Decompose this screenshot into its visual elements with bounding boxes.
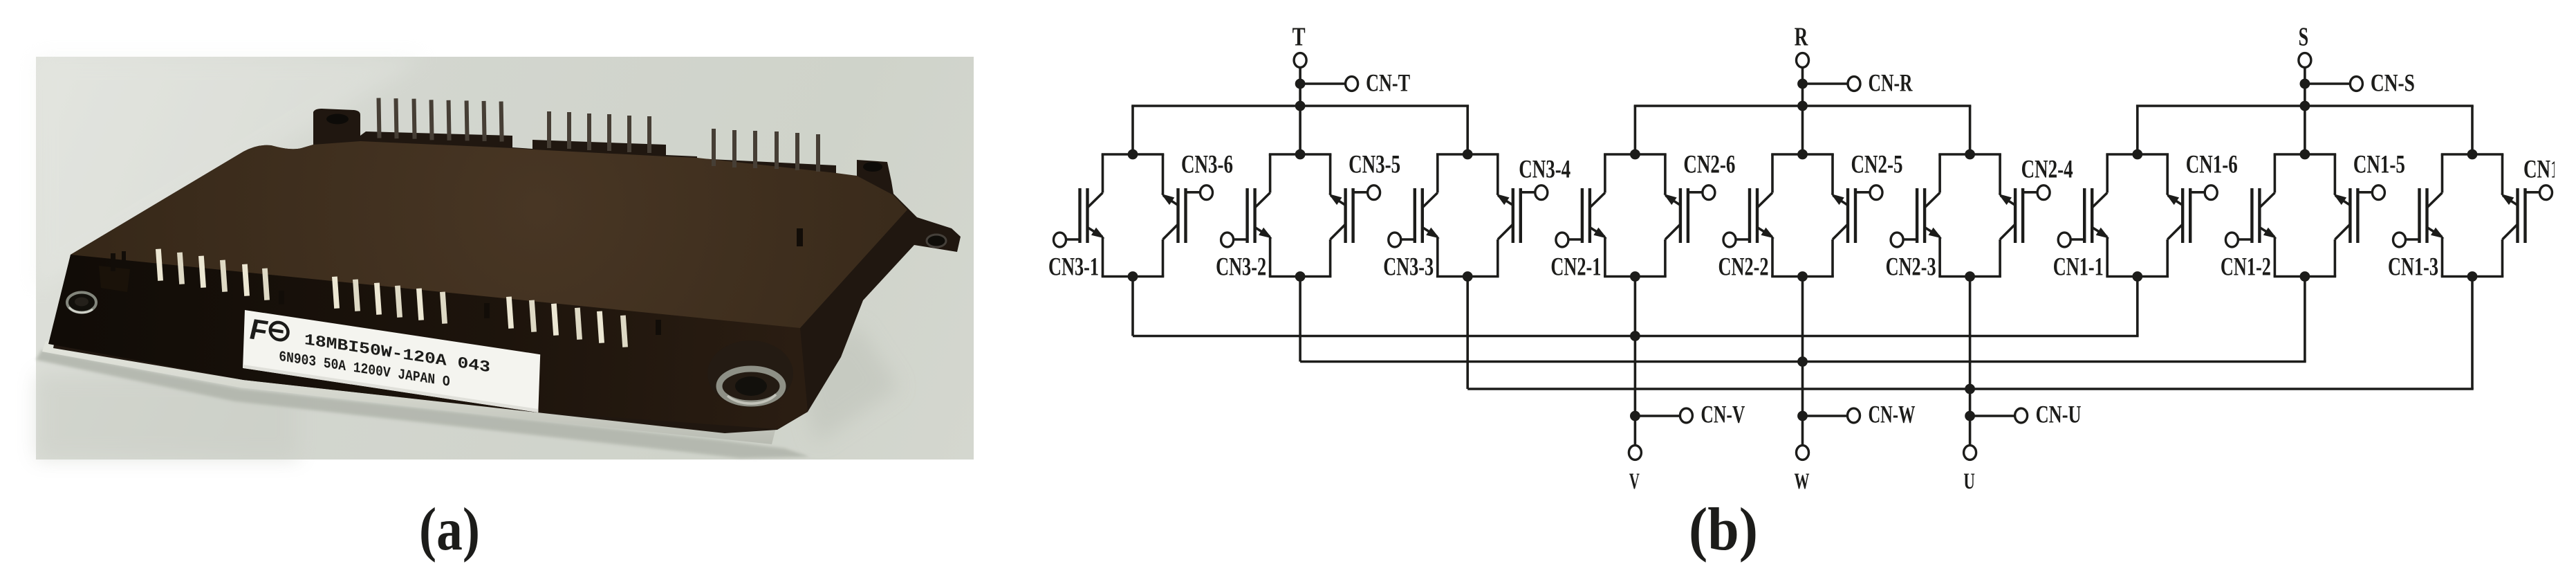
soft shadow right end	[795, 325, 899, 443]
junction dot cell bottom node	[1797, 271, 1808, 282]
junction dot cell bottom node	[2467, 271, 2478, 282]
back-left corner boss hole	[326, 114, 349, 125]
module power pin row C	[506, 296, 628, 347]
module shadow	[36, 350, 809, 458]
junction dot cell top node	[1463, 149, 1473, 160]
module front face	[48, 255, 808, 429]
svg-text:V: V	[1629, 469, 1640, 494]
wire right collector lead	[2166, 239, 2169, 277]
gate terminal circle CN1-2	[2225, 233, 2238, 247]
svg-text:CN1-1: CN1-1	[2053, 253, 2104, 282]
wire left collector lead	[1102, 154, 1104, 193]
wire cell top edge	[1102, 153, 1165, 156]
wire output stem W	[1801, 277, 1804, 446]
wire right emitter lead	[2166, 154, 2169, 194]
svg-text:CN-W: CN-W	[1869, 401, 1916, 428]
gate terminal circle CN3-5	[1368, 185, 1380, 200]
junction dot CN-R tap	[1797, 79, 1808, 89]
transistor CN2-2 (left IGBT)	[1736, 188, 1775, 243]
wire right emitter lead	[1664, 154, 1667, 194]
wire right emitter lead	[1831, 154, 1834, 194]
photo background highlight top-left	[36, 57, 429, 291]
svg-text:CN3-1: CN3-1	[1048, 253, 1099, 282]
connector circle CN-V	[1680, 408, 1692, 423]
gate terminal circle CN3-2	[1221, 233, 1234, 247]
photo background shade bottom-left	[36, 374, 299, 460]
wire right collector lead	[1999, 239, 2001, 277]
transistor CN3-6 (right IGBT)	[1161, 188, 1201, 243]
wire output bus U	[1467, 388, 2474, 390]
wire cell top edge	[2274, 153, 2337, 156]
svg-text:CN1-3: CN1-3	[2388, 253, 2438, 282]
wire left emitter lead	[2441, 238, 2444, 277]
transistor CN2-6 (right IGBT)	[1663, 188, 1703, 243]
junction dot T rail	[1295, 101, 1306, 111]
gate terminal circle CN2-2	[1723, 233, 1736, 247]
wire R rail	[1634, 104, 1972, 107]
wire CN-U tap	[1970, 415, 2015, 417]
svg-text:CN2-5: CN2-5	[1851, 151, 1903, 179]
svg-text:U: U	[1963, 469, 1975, 494]
transistor CN3-4 (right IGBT)	[1496, 188, 1535, 243]
svg-text:W: W	[1795, 469, 1810, 494]
wire left collector lead	[1771, 154, 1774, 193]
junction dot cell bottom node	[1295, 271, 1306, 282]
transistor CN1-6 (right IGBT)	[2166, 188, 2205, 243]
wire S rail	[2136, 104, 2474, 107]
wire cell CN1-3 drop to U bus	[2471, 277, 2474, 390]
wire S vertical feed	[2304, 68, 2306, 155]
svg-text:S: S	[2299, 23, 2309, 52]
input phase S	[2136, 23, 2474, 155]
junction dot U bus / output stem	[1965, 384, 1975, 394]
gate terminal circle CN1-6	[2205, 185, 2217, 200]
wire left emitter lead	[1436, 238, 1439, 277]
svg-text:(a): (a)	[419, 496, 480, 563]
wire output stem U	[1969, 277, 1972, 446]
svg-text:CN1-2: CN1-2	[2221, 253, 2271, 282]
front-left corner bump	[99, 266, 130, 292]
bidirectional switch cell CN1-3/CN1-4	[2388, 149, 2575, 282]
transistor CN2-5 (right IGBT)	[1831, 188, 1871, 243]
wire cell CN3-1 drop to V bus	[1131, 277, 1134, 336]
junction dot cell bottom node	[2132, 271, 2142, 282]
junction dot R rail	[1797, 101, 1808, 111]
transistor CN3-2 (left IGBT)	[1234, 188, 1272, 243]
connector circle CN-R	[1848, 77, 1860, 91]
output phase V	[1629, 277, 1745, 495]
terminal circle S	[2299, 53, 2311, 68]
wire cell top edge	[1436, 153, 1499, 156]
wire cell bottom edge	[2441, 275, 2504, 278]
wire output bus W	[1300, 361, 2306, 363]
front-right mounting boss	[707, 340, 793, 407]
junction dot cell top node	[1965, 149, 1975, 160]
photo background	[36, 57, 974, 460]
gate terminal circle CN2-3	[1891, 233, 1903, 247]
svg-text:CN2-3: CN2-3	[1886, 253, 1936, 282]
gate terminal circle CN1-5	[2372, 185, 2384, 200]
junction dot S rail	[2300, 101, 2310, 111]
wire right collector lead	[1664, 239, 1667, 277]
svg-text:CN1-5: CN1-5	[2353, 151, 2405, 179]
junction dot cell top node	[2467, 149, 2478, 160]
wire left emitter lead	[1938, 238, 1941, 277]
wire cell CN1-2 drop to W bus	[2304, 277, 2306, 362]
junction dot cell top node	[1128, 149, 1138, 160]
gate terminal circle CN3-1	[1054, 233, 1066, 247]
wire cell CN3-3 drop to U bus	[1466, 277, 1469, 390]
wire cell bottom edge	[1604, 275, 1667, 278]
junction dot W bus / output stem	[1797, 356, 1808, 367]
gate terminal circle CN3-3	[1389, 233, 1401, 247]
module signal pins group 1	[376, 96, 503, 143]
svg-text:CN2-2: CN2-2	[1718, 253, 1769, 282]
wire right emitter lead	[2334, 154, 2337, 194]
left mounting ear hole	[67, 293, 96, 313]
wire rail drop right	[2471, 106, 2474, 154]
wire CN-R tap	[1803, 82, 1848, 85]
wire cell top edge	[1938, 153, 2001, 156]
svg-text:CN1-6: CN1-6	[2186, 151, 2238, 179]
transistor CN2-4 (right IGBT)	[1999, 188, 2038, 243]
wire cell bottom edge	[2106, 275, 2169, 278]
wire right emitter lead	[1329, 154, 1332, 194]
transistor CN1-3 (left IGBT)	[2406, 188, 2445, 243]
white crop at right edge (as in original figure)	[2555, 0, 2576, 582]
svg-text:CN2-1: CN2-1	[1550, 253, 1601, 282]
wire rail drop left	[1634, 106, 1637, 154]
svg-text:T: T	[1292, 23, 1306, 52]
wire T vertical feed	[1299, 68, 1301, 155]
bidirectional switch cell CN3-3/CN3-4	[1383, 149, 1570, 282]
svg-text:CN3-6: CN3-6	[1181, 151, 1233, 179]
junction dot cell top node	[1797, 149, 1808, 160]
junction dot CN-W tap	[1797, 411, 1808, 421]
input phase T	[1131, 23, 1469, 155]
output phase U	[1963, 277, 2081, 495]
wire left collector lead	[1604, 154, 1606, 193]
wire left emitter lead	[1269, 238, 1272, 277]
bidirectional switch cell CN2-1/CN2-6	[1550, 149, 1735, 282]
junction dot cell top node	[2132, 149, 2142, 160]
gate terminal circle CN2-1	[1556, 233, 1568, 247]
terminal circle W	[1797, 446, 1809, 460]
transistor CN3-5 (right IGBT)	[1328, 188, 1368, 243]
module power pin row A	[156, 248, 270, 300]
wire cell top edge	[1269, 153, 1332, 156]
svg-text:CN3-3: CN3-3	[1383, 253, 1434, 282]
svg-text:CN-V: CN-V	[1701, 401, 1745, 428]
gate terminal circle CN2-6	[1703, 185, 1715, 200]
wire right collector lead	[2334, 239, 2337, 277]
module baseplate	[42, 341, 776, 444]
svg-text:CN3-4: CN3-4	[1519, 156, 1570, 184]
module power pin row B	[332, 276, 447, 323]
transistor CN3-1 (left IGBT)	[1066, 188, 1105, 243]
wire right collector lead	[2501, 239, 2504, 277]
junction dot cell bottom node	[1965, 271, 1975, 282]
wire right emitter lead	[2501, 154, 2504, 194]
wire R vertical feed	[1801, 68, 1804, 155]
wire rail drop right	[1466, 106, 1469, 154]
connector circle CN-W	[1848, 408, 1860, 423]
wire left collector lead	[2106, 154, 2109, 193]
connector circle CN-S	[2350, 77, 2362, 91]
junction dot V bus / output stem	[1630, 331, 1640, 341]
junction dot cell top node	[1295, 149, 1306, 160]
junction dot CN-S tap	[2300, 79, 2310, 89]
transistor CN1-4 (right IGBT)	[2501, 188, 2540, 243]
transistor CN2-1 (left IGBT)	[1568, 188, 1607, 243]
wire cell bottom edge	[1436, 275, 1499, 278]
wire right collector lead	[1831, 239, 1834, 277]
wire cell CN1-1 drop to V bus	[2136, 277, 2139, 336]
svg-text:CN2-6: CN2-6	[1683, 151, 1735, 179]
svg-text:CN3-2: CN3-2	[1216, 253, 1266, 282]
terminal circle V	[1629, 446, 1641, 460]
terminal circle R	[1797, 53, 1809, 68]
wire cell bottom edge	[1938, 275, 2001, 278]
wire CN-S tap	[2305, 82, 2351, 85]
wire cell bottom edge	[1102, 275, 1165, 278]
gate terminal circle CN1-3	[2393, 233, 2406, 247]
wire cell top edge	[2441, 153, 2504, 156]
wire cell top edge	[2106, 153, 2169, 156]
wire right collector lead	[1497, 239, 1499, 277]
wire left collector lead	[2274, 154, 2277, 193]
junction dot cell bottom node	[1630, 271, 1640, 282]
transistor CN1-2 (left IGBT)	[2238, 188, 2277, 243]
svg-text:CN-R: CN-R	[1869, 69, 1914, 97]
transistor CN1-5 (right IGBT)	[2333, 188, 2373, 243]
wire rail drop left	[2136, 106, 2139, 154]
wire cell top edge	[1771, 153, 1834, 156]
gate terminal circle CN1-1	[2058, 233, 2070, 247]
gate terminal circle CN2-4	[2037, 185, 2050, 200]
wire rail drop left	[1131, 106, 1134, 154]
wire left collector lead	[2441, 154, 2444, 193]
wire cell top edge	[1604, 153, 1667, 156]
bidirectional switch cell CN1-2/CN1-5	[2221, 149, 2405, 282]
wire cell bottom edge	[2274, 275, 2337, 278]
module nameplate label	[243, 310, 540, 412]
transistor CN3-3 (left IGBT)	[1401, 188, 1440, 243]
svg-text:R: R	[1795, 23, 1808, 52]
wire CN-T tap	[1300, 82, 1346, 85]
bidirectional switch cell CN2-3/CN2-4	[1886, 149, 2073, 282]
svg-text:F: F	[249, 312, 269, 347]
wire output bus V	[1133, 335, 2139, 338]
wire left emitter lead	[1771, 238, 1774, 277]
right mounting ear hole	[927, 235, 946, 247]
svg-text:CN3-5: CN3-5	[1349, 151, 1400, 179]
wire left collector lead	[1269, 154, 1272, 193]
wire left collector lead	[1938, 154, 1941, 193]
input phase R	[1634, 23, 1972, 155]
wire right collector lead	[1329, 239, 1332, 277]
wire left emitter lead	[2274, 238, 2277, 277]
back-right corner boss hole	[863, 162, 882, 172]
wire left emitter lead	[1102, 238, 1104, 277]
svg-text:CN-S: CN-S	[2371, 69, 2415, 97]
junction dot CN-T tap	[1295, 79, 1306, 89]
gate terminal circle CN3-6	[1201, 185, 1213, 200]
transistor CN1-1 (left IGBT)	[2070, 188, 2109, 243]
wire left collector lead	[1436, 154, 1439, 193]
wire right collector lead	[1162, 239, 1165, 277]
module signal pins group 3	[712, 129, 820, 172]
junction dot cell bottom node	[1463, 271, 1473, 282]
module body silhouette	[53, 109, 961, 433]
gate terminal circle CN1-4	[2540, 185, 2552, 200]
bidirectional switch cell CN1-1/CN1-6	[2053, 149, 2238, 282]
wire right emitter lead	[1999, 154, 2001, 194]
wire right emitter lead	[1497, 154, 1499, 194]
junction dot cell bottom node	[2300, 271, 2310, 282]
wire left emitter lead	[2106, 238, 2109, 277]
module signal pins group 2	[547, 111, 651, 153]
wire left emitter lead	[1604, 238, 1606, 277]
wire cell bottom edge	[1771, 275, 1834, 278]
wire output stem V	[1634, 277, 1637, 446]
module top surface	[71, 141, 907, 328]
junction dot CN-V tap	[1630, 411, 1640, 421]
bidirectional switch cell CN3-2/CN3-5	[1216, 149, 1400, 282]
junction dot cell bottom node	[1128, 271, 1138, 282]
terminal circle T	[1294, 53, 1306, 68]
connector circle CN-T	[1346, 77, 1358, 91]
svg-text:(b): (b)	[1689, 496, 1758, 563]
svg-text:CN2-4: CN2-4	[2021, 156, 2073, 184]
wire T rail	[1131, 104, 1469, 107]
wire CN-V tap	[1635, 415, 1680, 417]
bidirectional switch cell CN2-2/CN2-5	[1718, 149, 1903, 282]
output phase W	[1795, 277, 1916, 495]
transistor CN2-3 (left IGBT)	[1903, 188, 1942, 243]
junction dot cell top node	[2300, 149, 2310, 160]
wire CN-W tap	[1803, 415, 1848, 417]
svg-text:CN-U: CN-U	[2036, 401, 2082, 428]
wire rail drop right	[1969, 106, 1972, 154]
wire cell CN3-2 drop to W bus	[1299, 277, 1301, 362]
svg-text:CN-T: CN-T	[1366, 69, 1410, 97]
wire cell bottom edge	[1269, 275, 1332, 278]
connector circle CN-U	[2015, 408, 2028, 423]
gate terminal circle CN3-4	[1535, 185, 1548, 200]
Fuji logo	[249, 312, 288, 350]
bidirectional switch cell CN3-1/CN3-6	[1048, 149, 1233, 282]
wire right emitter lead	[1162, 154, 1165, 194]
junction dot cell top node	[1630, 149, 1640, 160]
junction dot CN-U tap	[1965, 411, 1975, 421]
terminal circle U	[1964, 446, 1976, 460]
dark pin marks on top surface	[111, 228, 803, 335]
gate terminal circle CN2-5	[1870, 185, 1882, 200]
